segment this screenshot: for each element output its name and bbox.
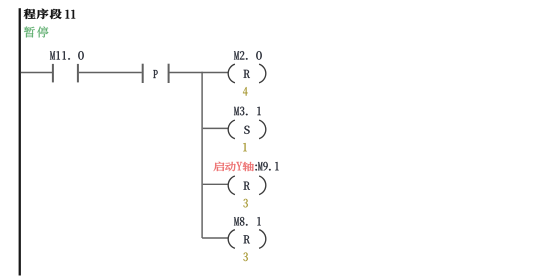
coil M9.1 (R) reset xyxy=(228,176,266,195)
wire branch to coil M3.1 xyxy=(203,127,228,129)
label M2.0 xyxy=(234,51,262,60)
value 3 xyxy=(243,199,247,208)
label 启动Y轴:M9.1 xyxy=(214,162,279,171)
value 4 xyxy=(243,87,248,96)
network comment 暂停 xyxy=(24,26,49,37)
edge contact P xyxy=(143,64,169,83)
contact M11.0 xyxy=(53,64,78,83)
wire P contact to coil M2.0 xyxy=(170,72,229,74)
wire branch to coil M9.1 xyxy=(203,183,228,185)
wire rail to contact M11.0 xyxy=(21,72,52,74)
value 3 xyxy=(243,253,247,262)
left power rail xyxy=(19,8,21,275)
network title 程序段 11 xyxy=(24,9,75,19)
label M11.0 xyxy=(50,51,84,60)
coil M2.0 (R) reset xyxy=(228,64,266,83)
wire contact M11.0 to P contact xyxy=(79,72,142,74)
wire branch corner to coil M8.1 xyxy=(202,237,228,239)
label M8.1 xyxy=(234,217,261,226)
label M3.1 xyxy=(234,107,261,116)
branch wire vertical xyxy=(201,72,203,238)
coil M8.1 (R) reset xyxy=(228,230,266,249)
value 1 xyxy=(243,143,247,151)
coil M3.1 (S) set xyxy=(228,120,266,139)
